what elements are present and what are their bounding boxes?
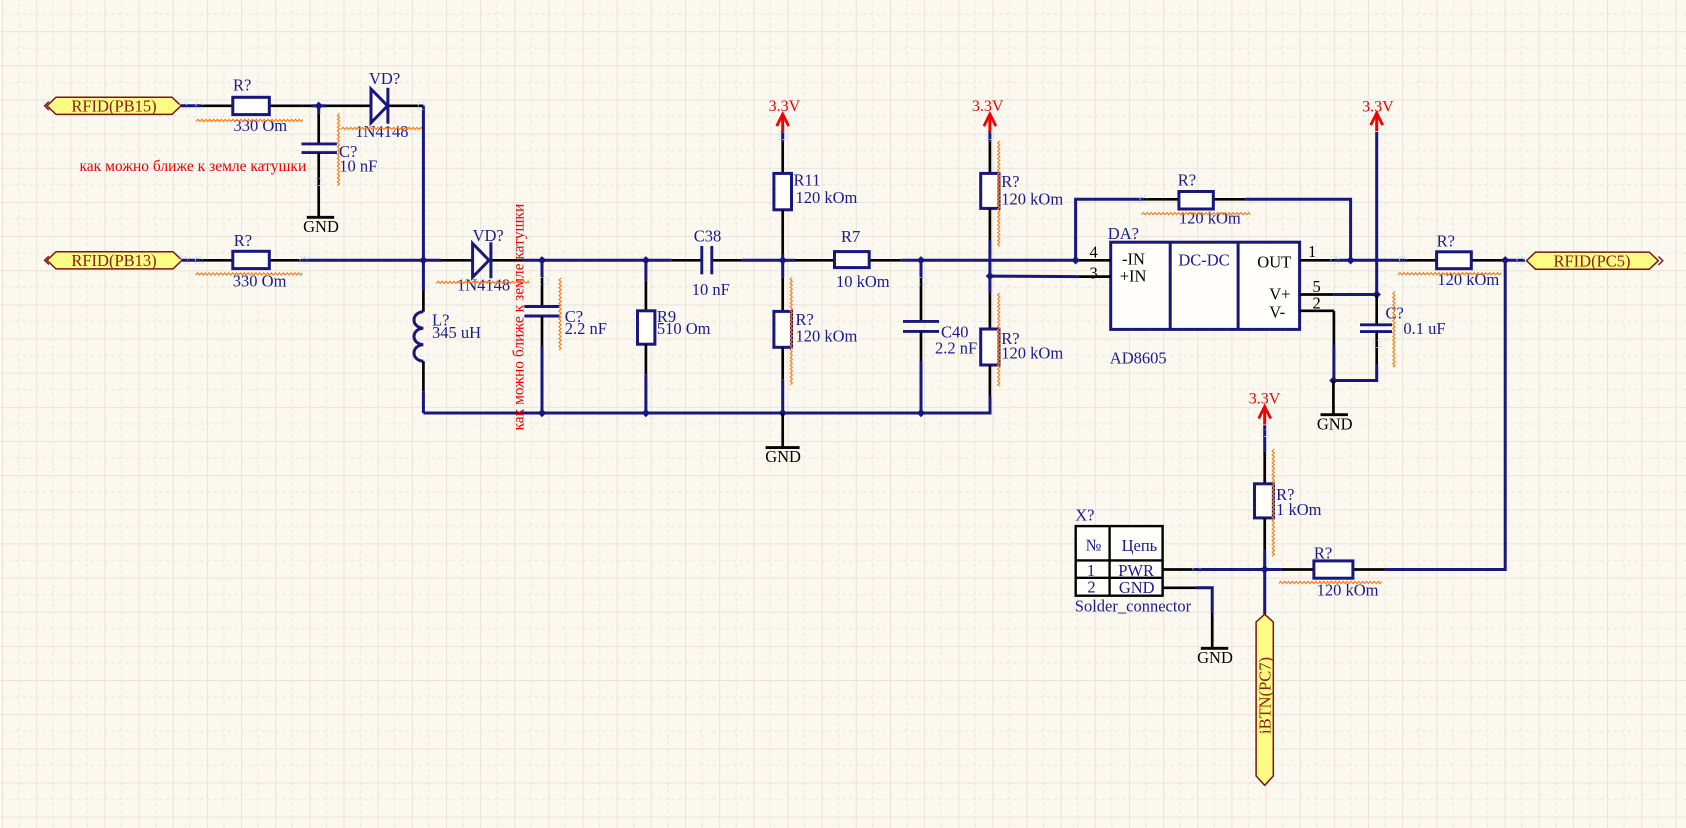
svg-text:10 nF: 10 nF	[339, 157, 377, 176]
wire	[921, 259, 1076, 262]
svg-text:GND: GND	[1197, 648, 1233, 667]
node junction	[1329, 376, 1337, 384]
svg-text:120 kOm: 120 kOm	[1001, 344, 1063, 363]
diode VD? 1N4148 (top row)	[341, 69, 425, 141]
capacitor C? 0.1 uF	[1360, 292, 1446, 368]
resistor R? 330 Om (second row)	[196, 231, 303, 290]
pin 3 (+IN)	[1079, 264, 1111, 283]
wire	[541, 346, 544, 413]
wire	[644, 374, 647, 413]
node junction	[1501, 256, 1509, 264]
wire	[1334, 293, 1377, 296]
svg-text:120 kOm: 120 kOm	[1001, 190, 1063, 209]
wire	[302, 104, 341, 107]
svg-text:2.2 nF: 2.2 nF	[935, 339, 977, 358]
power 3.3V (above R? divider)	[972, 98, 1004, 132]
svg-text:как можно ближе к земле катушк: как можно ближе к земле катушки	[80, 158, 307, 175]
svg-text:V+: V+	[1269, 285, 1290, 304]
wire (feedback)	[1076, 199, 1144, 260]
node junction	[538, 256, 546, 264]
svg-text:120 kOm: 120 kOm	[1179, 209, 1241, 228]
svg-text:R?: R?	[233, 76, 251, 95]
resistor R? 120 kOm (bottom)	[1279, 544, 1385, 600]
wire	[1503, 259, 1525, 262]
power 3.3V (above R? 1 kOm)	[1249, 391, 1281, 425]
svg-text:1N4148: 1N4148	[355, 122, 408, 141]
svg-text:510 Om: 510 Om	[657, 319, 711, 338]
svg-text:RFID(PB13): RFID(PB13)	[71, 251, 156, 270]
resistor R? 120 kOm (upper divider)	[981, 141, 1064, 246]
wire	[920, 361, 923, 413]
wire	[781, 254, 784, 260]
svg-text:DC-DC: DC-DC	[1178, 250, 1229, 269]
op-amp DA? AD8605 (DC-DC block)	[1108, 224, 1300, 367]
svg-text:R?: R?	[1437, 232, 1455, 251]
diode VD? 1N4148 (second row)	[436, 226, 529, 295]
pin 1 (PWR) wire	[1163, 568, 1196, 571]
svg-text:2.2 nF: 2.2 nF	[565, 319, 607, 338]
note: как можно ближе к земле катушки (horizontal)	[80, 158, 307, 175]
wire	[317, 106, 320, 114]
pin 5 (V+)	[1300, 277, 1334, 296]
svg-text:V-: V-	[1269, 302, 1285, 321]
wire	[1333, 365, 1376, 381]
wire	[1375, 132, 1378, 295]
connection markers	[180, 102, 1525, 573]
svg-text:VD?: VD?	[473, 226, 504, 245]
wire	[1335, 259, 1351, 262]
wire	[1351, 259, 1405, 262]
svg-text:3.3V: 3.3V	[972, 98, 1004, 115]
wire	[541, 260, 544, 276]
wire	[542, 259, 646, 262]
svg-text:Solder_connector: Solder_connector	[1075, 596, 1192, 615]
wire	[182, 259, 200, 262]
resistor R? 330 Om (top row)	[196, 76, 303, 135]
svg-text:GND: GND	[1317, 414, 1353, 433]
svg-text:GND: GND	[765, 447, 801, 466]
wire	[988, 276, 991, 293]
wire	[646, 259, 672, 262]
wire	[781, 132, 784, 142]
svg-text:3: 3	[1090, 264, 1098, 283]
svg-text:2: 2	[1087, 578, 1095, 597]
wire	[988, 240, 991, 276]
wire	[1385, 260, 1505, 569]
resistor R9 510 Om	[638, 281, 711, 374]
wire	[988, 132, 991, 142]
resistor R? 120 kOm (mid divider)	[774, 278, 858, 385]
wire	[1265, 568, 1282, 571]
node junction	[779, 256, 787, 264]
ground GND (top-left)	[303, 184, 339, 236]
node junction	[1373, 290, 1381, 298]
svg-text:OUT: OUT	[1257, 253, 1291, 272]
note: как можно ближе к земле катушки (vertical)	[511, 204, 528, 431]
node junction	[917, 256, 925, 264]
wire	[920, 260, 923, 277]
node junction	[419, 256, 427, 264]
svg-text:R?: R?	[1178, 170, 1196, 189]
wire	[422, 106, 425, 260]
node junction	[538, 409, 546, 417]
inductor L? 345 uH	[414, 291, 481, 392]
svg-text:C38: C38	[694, 227, 722, 246]
svg-text:1 kOm: 1 kOm	[1276, 500, 1322, 519]
svg-text:AD8605: AD8605	[1110, 348, 1167, 367]
svg-text:X?: X?	[1075, 506, 1094, 525]
port iBTN(PC7)	[1256, 614, 1275, 785]
svg-text:R11: R11	[794, 171, 821, 190]
ground GND (bottom rail)	[765, 413, 801, 466]
svg-text:R7: R7	[841, 227, 860, 246]
port RFID(PC5)	[1527, 251, 1663, 270]
svg-text:RFID(PB15): RFID(PB15)	[71, 96, 156, 115]
wire	[522, 259, 542, 262]
capacitor C? 10 nF	[302, 114, 378, 186]
node junction	[917, 409, 925, 417]
resistor R7 10 kOm	[795, 227, 901, 291]
svg-text:1N4148: 1N4148	[457, 276, 510, 295]
resistor R11 120 kOm	[774, 141, 858, 254]
wire (feedback)	[1245, 199, 1350, 260]
wire	[742, 259, 783, 262]
wire (bottom rail)	[423, 397, 990, 413]
power 3.3V (above R11)	[769, 98, 801, 132]
svg-text:10 nF: 10 nF	[692, 280, 730, 299]
port RFID(PB15)	[45, 96, 181, 115]
svg-text:10 kOm: 10 kOm	[836, 272, 890, 291]
svg-text:DA?: DA?	[1108, 224, 1139, 243]
svg-text:как можно ближе к земле катушк: как можно ближе к земле катушки	[511, 204, 528, 431]
wire	[1196, 568, 1265, 571]
wire	[1263, 425, 1266, 452]
node junction	[986, 272, 994, 280]
wire	[1196, 588, 1212, 613]
power 3.3V (above V+)	[1362, 98, 1394, 131]
capacitor C38 10 nF	[672, 227, 742, 299]
wire	[181, 104, 201, 107]
resistor R? 120 kOm (output)	[1398, 232, 1503, 290]
wire	[781, 260, 784, 277]
wire	[1263, 550, 1266, 570]
node junction	[642, 256, 650, 264]
wire	[422, 260, 425, 290]
wire	[423, 259, 441, 262]
wire	[783, 259, 795, 262]
svg-text:345 uH: 345 uH	[432, 323, 481, 342]
ground GND (connector)	[1197, 613, 1233, 667]
port RFID(PB13)	[45, 251, 182, 270]
node junction	[1346, 256, 1354, 264]
svg-text:3.3V: 3.3V	[769, 98, 801, 115]
svg-text:2: 2	[1313, 293, 1321, 312]
svg-text:iBTN(PC7): iBTN(PC7)	[1256, 657, 1275, 734]
pin 2 (GND) wire	[1163, 586, 1196, 589]
ground GND (below V-)	[1317, 381, 1353, 434]
svg-text:Цепь: Цепь	[1122, 536, 1158, 555]
wire	[644, 260, 647, 281]
resistor R? 1 kOm	[1255, 449, 1322, 556]
pin 4 (-IN)	[1079, 243, 1111, 262]
node junction	[315, 102, 323, 110]
wire	[302, 259, 423, 262]
svg-text:1: 1	[1308, 242, 1316, 261]
svg-text:4: 4	[1090, 243, 1098, 262]
wire	[422, 391, 425, 413]
svg-text:GND: GND	[1119, 578, 1155, 597]
wire	[1263, 570, 1266, 615]
node junction	[779, 409, 787, 417]
pin 1 (OUT)	[1300, 242, 1335, 261]
svg-text:0.1 uF: 0.1 uF	[1403, 319, 1445, 338]
connector X? Solder_connector	[1075, 506, 1192, 616]
svg-text:VD?: VD?	[369, 69, 400, 88]
capacitor C40 2.2 nF	[903, 277, 977, 361]
pin 2 (V-)	[1300, 293, 1334, 312]
svg-text:GND: GND	[303, 217, 339, 236]
node junction	[1261, 565, 1269, 573]
wire	[1076, 259, 1079, 262]
svg-text:C?: C?	[1386, 304, 1404, 323]
svg-text:120 kOm: 120 kOm	[796, 188, 858, 207]
node junction	[642, 409, 650, 417]
svg-text:RFID(PC5): RFID(PC5)	[1553, 251, 1630, 270]
wire (+IN net)	[990, 275, 1079, 279]
svg-text:R?: R?	[234, 231, 252, 250]
resistor R? 120 kOm (lower divider)	[981, 293, 1064, 397]
resistor R? 120 kOm (feedback)	[1142, 170, 1251, 227]
wire (V- net)	[1333, 311, 1336, 381]
svg-text:№: №	[1086, 535, 1102, 554]
node junction	[1071, 256, 1079, 264]
svg-text:R?: R?	[1314, 544, 1332, 563]
capacitor C? 2.2 nF	[524, 277, 606, 351]
svg-text:120 kOm: 120 kOm	[796, 326, 858, 345]
wire	[781, 379, 784, 413]
svg-text:+IN: +IN	[1120, 267, 1147, 286]
svg-text:R?: R?	[1001, 172, 1019, 191]
wire	[901, 259, 921, 262]
